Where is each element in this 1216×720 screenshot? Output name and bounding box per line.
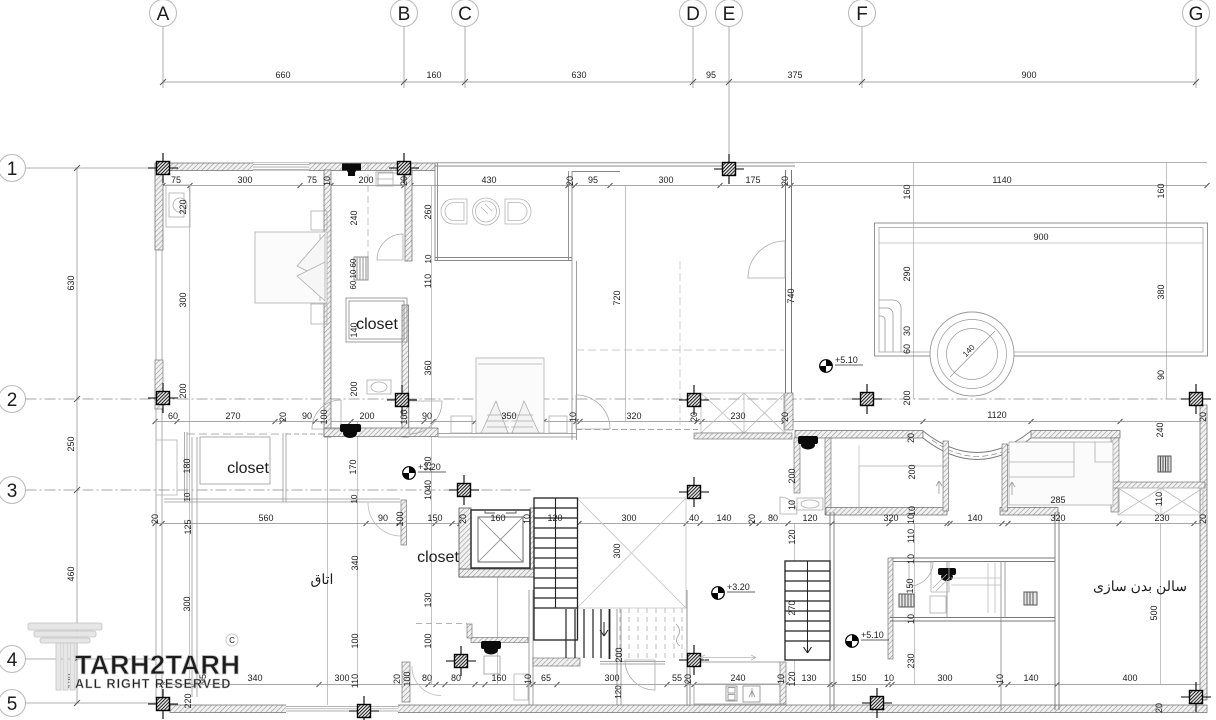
svg-text:90: 90: [378, 513, 388, 523]
svg-text:110: 110: [423, 274, 433, 288]
grid bubble E: [716, 0, 743, 155]
spa diameter line: [950, 331, 995, 377]
grid bubble A: [150, 0, 177, 88]
svg-text:20: 20: [278, 412, 288, 422]
stairwell wall x830: [830, 512, 834, 710]
level marker +3.20 hall: [403, 462, 446, 479]
column B4: [446, 646, 476, 676]
column E2: [679, 385, 709, 415]
svg-text:180: 180: [182, 458, 192, 473]
bottom outer wall: [170, 705, 1207, 713]
door arc bath bottom: [412, 667, 441, 696]
bed 2: [451, 358, 567, 433]
plan dim line row3 y523: [155, 523, 1207, 525]
svg-text:80: 80: [422, 673, 432, 683]
svg-text:430: 430: [481, 175, 496, 185]
pool dim line 900: [879, 242, 1203, 244]
leader x431: [431, 186, 433, 684]
sauna divider x1001: [1001, 561, 1005, 710]
left wall stub at row2: [155, 360, 163, 409]
svg-text:40: 40: [689, 513, 699, 523]
column A2: [148, 383, 178, 413]
svg-text:150: 150: [851, 673, 866, 683]
svg-text:10: 10: [906, 614, 916, 624]
svg-text:630: 630: [571, 70, 586, 80]
svg-text:200: 200: [902, 390, 912, 405]
spa circle outer: [930, 312, 1014, 396]
toilet 2: [505, 199, 531, 224]
bed right room: [1009, 442, 1113, 505]
bottom wall window: [286, 705, 398, 714]
svg-text:10: 10: [350, 494, 359, 503]
svg-text:90: 90: [422, 411, 432, 421]
wall E x788 double: [786, 170, 792, 430]
hall line y660: [600, 662, 780, 665]
svg-text:260: 260: [423, 204, 433, 219]
svg-text:20: 20: [392, 674, 402, 684]
column G2: [1181, 384, 1211, 414]
svg-text:500: 500: [1149, 605, 1159, 620]
svg-text:320: 320: [1050, 513, 1065, 523]
row bubble 4: [0, 646, 157, 673]
svg-text:closet: closet: [356, 316, 398, 333]
svg-text:250: 250: [66, 436, 76, 451]
right outer wall: [1200, 405, 1207, 700]
wall y511 segment a: [826, 508, 947, 516]
svg-text:F: F: [856, 4, 868, 25]
svg-text:740: 740: [786, 288, 796, 303]
svg-text:80: 80: [768, 513, 778, 523]
pool inner rect: [879, 228, 1203, 353]
svg-text:175: 175: [745, 175, 760, 185]
wall band E-F y434: [795, 431, 923, 439]
svg-text:110: 110: [906, 529, 916, 543]
svg-text:200: 200: [907, 464, 917, 479]
svg-text:120: 120: [802, 513, 817, 523]
leader x1167 pool: [1166, 162, 1168, 399]
svg-text:270: 270: [225, 411, 240, 421]
svg-text:20: 20: [780, 176, 790, 186]
dashed wall closet2 top: [187, 433, 283, 435]
sauna divider x947: [946, 561, 948, 618]
svg-text:660: 660: [275, 70, 290, 80]
grid bubble F: [849, 0, 876, 88]
svg-text:140: 140: [1023, 673, 1038, 683]
svg-text:10: 10: [349, 269, 358, 278]
column A1: [148, 153, 178, 183]
row bubble 1: [0, 155, 157, 182]
bedroom2 right wall thin: [572, 261, 577, 440]
svg-text:+5.10: +5.10: [861, 630, 884, 640]
sauna bottom wall: [890, 618, 1055, 622]
level marker +5.10 stair: [846, 630, 889, 647]
leader x914 lower: [914, 523, 916, 684]
mid dashed lines hall: [576, 261, 784, 429]
X-hatch box row3 right: [1112, 482, 1205, 488]
bed 1: [255, 211, 327, 324]
svg-text:100: 100: [399, 409, 409, 424]
svg-text:110: 110: [1154, 492, 1164, 506]
svg-text:120: 120: [547, 513, 562, 523]
svg-text:130: 130: [423, 592, 433, 607]
svg-text:closet: closet: [227, 460, 269, 477]
wall y511 segment b: [1000, 508, 1058, 516]
left stair flight: [533, 498, 580, 666]
svg-text:200: 200: [358, 175, 373, 185]
plan dim line row4 y684: [155, 684, 1207, 686]
door arc kitchen: [625, 660, 655, 690]
sauna shower corner: [931, 562, 950, 592]
svg-text:20: 20: [689, 412, 699, 422]
left dimension line: [76, 168, 78, 703]
door arc corridor top: [377, 234, 403, 260]
top dimension line: [163, 81, 1196, 83]
svg-text:ALL RIGHT RESERVED: ALL RIGHT RESERVED: [75, 677, 231, 691]
svg-text:20: 20: [458, 514, 468, 524]
roof line right of E: [795, 162, 1207, 164]
svg-text:300: 300: [621, 513, 636, 523]
svg-text:240: 240: [349, 210, 359, 225]
svg-text:5: 5: [7, 694, 18, 715]
svg-text:340: 340: [350, 555, 360, 570]
radiator right room: [1158, 456, 1171, 472]
svg-text:10: 10: [568, 412, 578, 422]
grid bubble C: [452, 0, 479, 88]
svg-text:140: 140: [716, 513, 731, 523]
svg-text:130: 130: [801, 673, 816, 683]
svg-text:اتاق: اتاق: [311, 571, 334, 588]
svg-text:380: 380: [1156, 284, 1166, 299]
terrace line x192: [192, 437, 197, 697]
svg-text:1040: 1040: [423, 480, 433, 500]
column B5: [349, 696, 379, 720]
WC blob small bath: [340, 424, 361, 438]
svg-text:900: 900: [1021, 70, 1036, 80]
duct top corridor: [378, 173, 404, 185]
svg-text:160: 160: [491, 673, 506, 683]
svg-text:200: 200: [614, 647, 624, 662]
svg-text:375: 375: [787, 70, 802, 80]
elevator cab: [471, 510, 530, 568]
kitchen counter: [694, 684, 780, 704]
svg-text:10: 10: [906, 514, 916, 524]
svg-text:320: 320: [883, 513, 898, 523]
svg-text:C: C: [458, 4, 472, 25]
small dark flight bottom: [566, 609, 610, 659]
column B1: [389, 153, 419, 183]
level marker +3.20 court: [712, 582, 755, 599]
sauna glass box: [930, 596, 946, 613]
svg-text:60: 60: [349, 258, 358, 267]
wall B vertical x327: [324, 170, 331, 437]
grid bubble B: [391, 0, 418, 88]
svg-text:130: 130: [423, 456, 433, 471]
svg-text:TARH2TARH: TARH2TARH: [75, 650, 241, 680]
svg-text:10: 10: [906, 554, 916, 564]
svg-text:90: 90: [1156, 370, 1166, 380]
steam room radiator: [1024, 592, 1037, 605]
svg-text:20: 20: [399, 176, 409, 186]
svg-text:300: 300: [334, 673, 349, 683]
column B2: [387, 385, 417, 415]
svg-text:100: 100: [350, 633, 360, 648]
plan dim line row2 y421: [155, 421, 1207, 423]
svg-text:160: 160: [426, 70, 441, 80]
platform left room: [859, 466, 948, 513]
svg-text:10: 10: [787, 500, 797, 510]
grid bubble D: [680, 0, 707, 88]
svg-text:300: 300: [182, 596, 192, 611]
elevator X: [478, 517, 523, 562]
wall x619 lower: [617, 609, 621, 705]
svg-text:120: 120: [787, 671, 797, 686]
closet2 walls: [156, 432, 400, 502]
left outer wall upper: [155, 170, 163, 250]
column G5: [1181, 682, 1211, 712]
svg-text:150: 150: [427, 513, 442, 523]
top outer wall: [155, 163, 435, 171]
corridor dashed centerline: [367, 163, 369, 260]
svg-text:340: 340: [247, 673, 262, 683]
svg-text:20: 20: [1154, 703, 1164, 713]
svg-text:100: 100: [423, 633, 433, 648]
svg-text:20: 20: [1198, 514, 1208, 524]
small bath basin: [367, 380, 391, 394]
svg-text:1140: 1140: [992, 175, 1011, 185]
door arc hall y433: [576, 395, 610, 429]
mid wall band below B: [324, 428, 438, 437]
svg-text:95: 95: [706, 70, 716, 80]
wall band right of curve: [1031, 431, 1120, 439]
svg-text:B: B: [398, 4, 411, 25]
plan dim line row1 y185: [163, 185, 1207, 187]
svg-text:3: 3: [7, 481, 18, 502]
column A5: [148, 689, 178, 719]
logo copyright: [226, 634, 238, 646]
left outer wall window run: [156, 250, 162, 698]
hall bottom wall y430 C-D: [576, 429, 698, 431]
svg-text:60: 60: [168, 411, 178, 421]
svg-text:160: 160: [490, 513, 505, 523]
svg-text:2: 2: [7, 390, 18, 411]
sauna bench middle: [951, 563, 1001, 613]
svg-text:300: 300: [237, 175, 252, 185]
doorway walls mid-right: [943, 441, 949, 511]
right room wall x1115: [1111, 438, 1119, 512]
svg-text:300: 300: [658, 175, 673, 185]
column E3: [679, 477, 709, 507]
svg-text:65: 65: [541, 673, 551, 683]
door arc WC right: [780, 497, 797, 514]
svg-text:290: 290: [902, 266, 912, 281]
svg-text:120: 120: [614, 685, 623, 699]
svg-text:170: 170: [348, 459, 358, 474]
door arc sauna: [909, 562, 933, 586]
svg-text:80: 80: [451, 673, 461, 683]
light flight bottom: [620, 608, 682, 660]
svg-text:125: 125: [183, 519, 193, 534]
svg-text:20: 20: [1198, 412, 1208, 422]
svg-text:75: 75: [171, 175, 181, 185]
svg-text:10: 10: [183, 492, 192, 501]
curved wall: [923, 431, 1031, 460]
bedroom2 bottom double line: [438, 434, 576, 438]
svg-text:150: 150: [905, 578, 915, 593]
svg-text:60: 60: [349, 280, 358, 289]
leader x190 left rooms: [189, 186, 191, 684]
WC blob bottom center: [481, 641, 501, 655]
svg-text:285: 285: [1050, 495, 1065, 505]
desk bed1: [166, 185, 190, 227]
row bubble 3: [0, 477, 533, 504]
stair arrow: [804, 645, 812, 653]
wall x533 lower: [529, 590, 533, 705]
svg-text:160: 160: [1156, 183, 1166, 198]
svg-text:630: 630: [66, 275, 76, 290]
svg-text:220: 220: [183, 693, 193, 708]
svg-text:200: 200: [787, 468, 797, 483]
X-hatch box row2 D-E: [701, 393, 785, 433]
svg-text:60: 60: [902, 344, 912, 354]
leader x794 stairwell: [794, 523, 796, 684]
WC blob sauna: [938, 568, 956, 581]
svg-text:75: 75: [307, 175, 317, 185]
WC blob right: [798, 436, 818, 450]
sauna top wall: [890, 558, 1055, 562]
svg-text:10: 10: [424, 254, 433, 263]
sauna basin dark: [899, 594, 914, 607]
svg-text:350: 350: [501, 411, 516, 421]
svg-text:140: 140: [967, 513, 982, 523]
svg-text:200: 200: [178, 383, 188, 398]
heater small bath: [0, 0, 1, 1]
svg-text:+3.20: +3.20: [727, 582, 750, 592]
wall stub x403 below row3: [401, 500, 407, 545]
level marker +5.10 terrace: [820, 355, 863, 372]
leader x1160 lower: [1160, 523, 1162, 684]
elevator shaft walls: [459, 508, 471, 577]
svg-text:100: 100: [319, 409, 329, 424]
svg-text:110: 110: [350, 674, 360, 688]
svg-text:560: 560: [258, 513, 273, 523]
svg-text:10: 10: [776, 674, 786, 684]
svg-text:20: 20: [150, 514, 160, 524]
pool outer rect: [875, 223, 1208, 356]
column E1: [714, 154, 744, 184]
spa circle mid: [938, 320, 1007, 389]
svg-text:300: 300: [937, 673, 952, 683]
svg-text:4: 4: [7, 650, 18, 671]
pool steps: [879, 300, 901, 352]
svg-text:230: 230: [730, 411, 745, 421]
svg-text:300: 300: [612, 543, 622, 558]
svg-text:100: 100: [395, 511, 405, 526]
toilet 1 (bidet): [441, 199, 467, 224]
door arc atagh: [368, 503, 401, 536]
svg-text:G: G: [1189, 4, 1204, 25]
round basin: [473, 198, 500, 225]
leader x625: [625, 186, 627, 421]
kitchen wall x781: [780, 662, 786, 704]
svg-text:+5.10: +5.10: [835, 355, 858, 365]
leader x357: [357, 421, 359, 684]
small rect bottom x490: [484, 656, 500, 674]
door arc bed1 bottom: [312, 400, 341, 429]
fan blob top wall: [342, 164, 361, 177]
washer corridor: [376, 172, 393, 186]
svg-text:10: 10: [995, 674, 1005, 684]
right stair flight: [785, 561, 830, 660]
bedroom2 left wall x405 lower: [402, 305, 409, 437]
svg-text:240: 240: [1155, 422, 1165, 437]
svg-text:20: 20: [780, 412, 790, 422]
svg-text:سالن بدن سازی: سالن بدن سازی: [1093, 578, 1187, 595]
closet1 walls: [346, 298, 407, 342]
svg-text:900: 900: [1033, 232, 1048, 242]
svg-text:230: 230: [1154, 513, 1169, 523]
leader x497 bottomleft: [497, 523, 499, 684]
door arc closet2: [122, 465, 124, 467]
WC room wall x797: [794, 438, 800, 493]
row bubble 2: [0, 386, 1210, 413]
svg-text:10: 10: [884, 673, 894, 683]
svg-text:100: 100: [402, 671, 412, 686]
svg-text:300: 300: [604, 673, 619, 683]
svg-text:D: D: [686, 4, 700, 25]
radiator corridor: [354, 257, 368, 280]
leader x913 pool: [913, 162, 915, 399]
wall C vertical x573: [569, 171, 621, 261]
grid bubble G: [1183, 0, 1210, 88]
svg-text:1120: 1120: [987, 410, 1006, 420]
svg-text:E: E: [723, 4, 736, 25]
svg-text:10: 10: [523, 674, 533, 684]
column E4: [679, 645, 709, 675]
logo column icon: [28, 623, 102, 690]
svg-text:120: 120: [787, 529, 797, 544]
wall line x327 lower dashed: [327, 437, 329, 705]
column F2: [852, 384, 882, 414]
svg-text:220: 220: [178, 199, 188, 214]
spa circle inner: [947, 329, 998, 380]
svg-text:20: 20: [906, 433, 916, 443]
svg-text:95: 95: [588, 175, 598, 185]
column F5: [862, 688, 892, 718]
svg-text:90: 90: [302, 411, 312, 421]
svg-text:20: 20: [747, 514, 757, 524]
svg-text:200: 200: [349, 381, 359, 396]
svg-text:230: 230: [906, 653, 916, 668]
svg-text:200: 200: [359, 411, 374, 421]
svg-text:20: 20: [565, 176, 575, 186]
door arc hall top: [748, 241, 785, 278]
basin WC right: [797, 498, 823, 510]
bathroom left partition x436: [435, 163, 438, 261]
svg-text:360: 360: [423, 360, 433, 375]
row bubble 5: [0, 690, 157, 717]
svg-text:460: 460: [66, 566, 76, 581]
svg-text:160: 160: [902, 184, 912, 199]
window in top wall: [253, 163, 309, 171]
svg-text:400: 400: [1122, 673, 1137, 683]
svg-text:270: 270: [787, 600, 797, 615]
column B3: [449, 475, 479, 505]
svg-text:300: 300: [178, 292, 188, 307]
top dim ticks: [160, 79, 1199, 85]
svg-text:C: C: [229, 636, 235, 645]
gym left wall x1057: [1055, 512, 1059, 710]
WC room walls x825: [825, 438, 831, 515]
